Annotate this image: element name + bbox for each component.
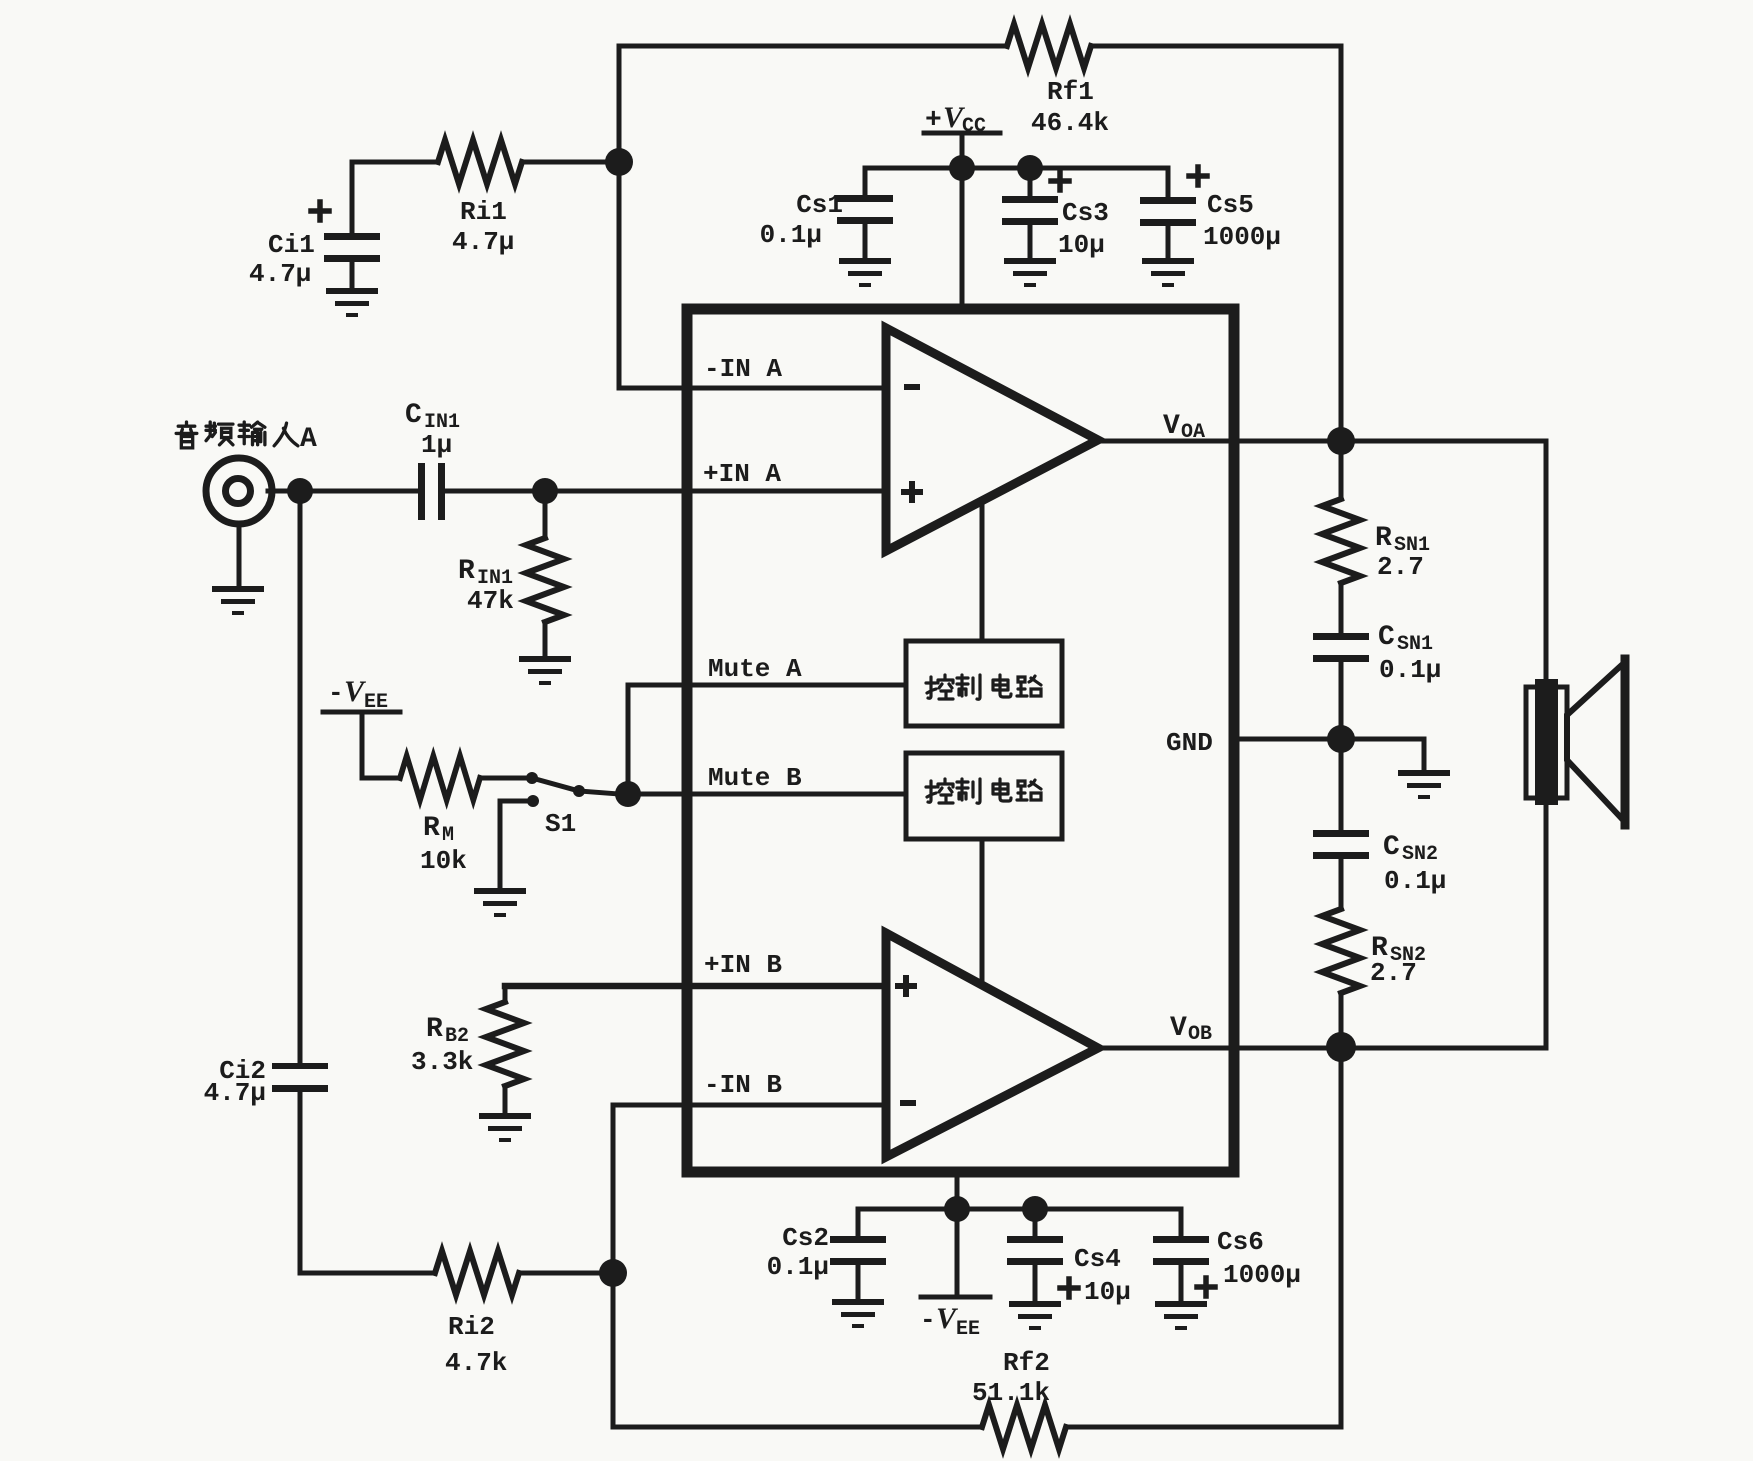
op-amp U1B minus mark bbox=[900, 1100, 916, 1106]
capacitor Ci1 bbox=[311, 202, 380, 288]
wire bottom feedback right segment bbox=[1068, 1425, 1341, 1430]
node Ri2 junction bbox=[599, 1259, 627, 1287]
svg-text:Cs5: Cs5 bbox=[1207, 190, 1254, 220]
svg-text:+IN A: +IN A bbox=[703, 459, 781, 489]
resistor RSN2 bbox=[1322, 909, 1360, 993]
svg-text:Cs2: Cs2 bbox=[782, 1223, 829, 1253]
svg-text:4.7k: 4.7k bbox=[445, 1348, 507, 1378]
resistor Ri1 bbox=[438, 140, 522, 184]
svg-text:2.7: 2.7 bbox=[1377, 552, 1424, 582]
wire VCC stem into box bbox=[960, 133, 965, 308]
svg-text:0.1µ: 0.1µ bbox=[767, 1252, 829, 1282]
ground audio input bbox=[212, 586, 264, 615]
capacitor CSN2 bbox=[1313, 830, 1369, 859]
svg-text:B2: B2 bbox=[445, 1025, 469, 1048]
resistor Rf2 bbox=[982, 1405, 1066, 1449]
wire bottom feedback left segment bbox=[613, 1425, 982, 1430]
wire CSN2 to RSN2 bbox=[1339, 859, 1344, 909]
svg-text:Ri1: Ri1 bbox=[460, 197, 507, 227]
capacitor Cs3 bbox=[1002, 168, 1069, 258]
svg-text:-IN B: -IN B bbox=[704, 1070, 782, 1100]
svg-text:SN1: SN1 bbox=[1397, 633, 1433, 656]
wire Ri1 left lead bbox=[352, 160, 619, 165]
wire CSN1 to GND node bbox=[1339, 662, 1344, 830]
wire -IN B bbox=[613, 1103, 886, 1108]
op-amp U1A bbox=[886, 328, 1098, 551]
label Rf2 value bbox=[972, 1348, 1050, 1408]
wire GND stem bbox=[1422, 739, 1427, 770]
svg-text:0.1µ: 0.1µ bbox=[1379, 655, 1441, 685]
node Cs3 tap bbox=[1017, 155, 1043, 181]
svg-text:1000µ: 1000µ bbox=[1223, 1260, 1301, 1290]
speaker LS1 bbox=[1526, 659, 1625, 825]
IC outline box bbox=[687, 309, 1234, 1172]
node VEE stem rail bbox=[944, 1196, 970, 1222]
wire -IN B vertical bbox=[611, 1105, 616, 1427]
svg-text:-IN A: -IN A bbox=[704, 354, 782, 384]
capacitor Ci2 bbox=[272, 1063, 328, 1092]
label Cs4 value bbox=[1074, 1244, 1131, 1307]
svg-text:R: R bbox=[426, 1014, 443, 1045]
capacitor Cs4 bbox=[1007, 1209, 1078, 1301]
ground Cs4 bbox=[1009, 1301, 1061, 1330]
label RB2 value bbox=[411, 1014, 473, 1077]
label Cs2 value bbox=[767, 1223, 829, 1282]
svg-text:+IN B: +IN B bbox=[704, 950, 782, 980]
svg-text:Rf2: Rf2 bbox=[1003, 1348, 1050, 1378]
svg-text:4.7µ: 4.7µ bbox=[452, 227, 514, 257]
wire RM right lead bbox=[480, 776, 527, 781]
capacitor Cs5 bbox=[1140, 167, 1207, 258]
svg-text:Ri2: Ri2 bbox=[448, 1312, 495, 1342]
switch S1 bbox=[526, 772, 619, 807]
svg-text:1000µ: 1000µ bbox=[1203, 222, 1281, 252]
svg-text:Ci1: Ci1 bbox=[268, 230, 315, 260]
wire opamp A to control 1 bbox=[980, 500, 985, 641]
svg-text:2.7: 2.7 bbox=[1370, 958, 1417, 988]
wire speaker bottom bbox=[1544, 805, 1549, 1047]
wire Mute B bbox=[628, 792, 906, 797]
pin VOB label bbox=[1170, 1013, 1212, 1046]
ground Cs6 bbox=[1155, 1301, 1207, 1330]
label RM value bbox=[420, 813, 467, 876]
svg-text:S1: S1 bbox=[545, 809, 576, 839]
svg-text:4.7µ: 4.7µ bbox=[249, 259, 311, 289]
svg-text:R: R bbox=[458, 556, 475, 587]
svg-text:Rf1: Rf1 bbox=[1047, 77, 1094, 107]
svg-text:C: C bbox=[1378, 622, 1395, 653]
label CSN2 value bbox=[1383, 832, 1446, 896]
wire Mute A bbox=[628, 683, 906, 688]
wire mute link vertical bbox=[626, 685, 631, 794]
svg-text:0.1µ: 0.1µ bbox=[760, 220, 822, 250]
label Cs5 value bbox=[1203, 190, 1281, 252]
pin VOA label bbox=[1163, 411, 1205, 444]
svg-text:51.1k: 51.1k bbox=[972, 1378, 1050, 1408]
wire RM left lead bbox=[362, 712, 400, 778]
node GND junction bbox=[1327, 725, 1355, 753]
node Ri1 junction bbox=[605, 148, 633, 176]
ground Cs1 bbox=[839, 258, 891, 287]
svg-text:10k: 10k bbox=[420, 846, 467, 876]
label Rf1 value bbox=[1031, 77, 1109, 138]
svg-text:Cs4: Cs4 bbox=[1074, 1244, 1121, 1274]
label CIN1 value bbox=[405, 400, 460, 460]
wire control 2 to opamp B bbox=[980, 839, 985, 985]
op-amp U1A minus mark bbox=[904, 384, 920, 390]
resistor RB2 bbox=[486, 986, 524, 1113]
wire audio node to Ci2 bbox=[298, 491, 303, 1063]
capacitor CSN1 bbox=[1313, 633, 1369, 662]
svg-text:0.1µ: 0.1µ bbox=[1384, 866, 1446, 896]
wire +IN B bbox=[505, 983, 886, 990]
wire Ci1 top lead bbox=[350, 162, 355, 233]
svg-text:10µ: 10µ bbox=[1058, 230, 1105, 260]
op-amp U1A plus mark bbox=[904, 484, 920, 500]
svg-text:SN2: SN2 bbox=[1402, 843, 1438, 866]
svg-text:OA: OA bbox=[1181, 421, 1205, 444]
wire VOA vertical chain top bbox=[1339, 441, 1344, 499]
label Cs6 value bbox=[1217, 1227, 1301, 1290]
node input A bbox=[287, 478, 313, 504]
control circuit block 1 bbox=[906, 641, 1062, 726]
power -VEE symbol lower bbox=[920, 1297, 990, 1341]
wire Ci2 to Ri2 bbox=[300, 1092, 435, 1273]
wire speaker top bbox=[1544, 441, 1549, 679]
label Cs1 value bbox=[760, 190, 843, 250]
ground Cs5 bbox=[1142, 258, 1194, 287]
wire RSN2 to VOB node bbox=[1339, 993, 1344, 1427]
svg-text:Mute A: Mute A bbox=[708, 654, 802, 684]
ground S1 bbox=[474, 888, 526, 917]
svg-text:GND: GND bbox=[1166, 728, 1213, 758]
svg-text:-: - bbox=[920, 1305, 936, 1335]
label Ri2 value bbox=[445, 1312, 507, 1378]
label RSN2 value bbox=[1370, 933, 1426, 988]
resistor RIN1 bbox=[526, 491, 564, 656]
svg-text:-: - bbox=[328, 678, 344, 708]
op-amp U1B bbox=[886, 933, 1098, 1157]
wire opamp A output bbox=[1098, 439, 1546, 444]
wire IC bottom VEE stem bbox=[955, 1172, 960, 1297]
svg-text:R: R bbox=[423, 813, 440, 844]
capacitor Cs1 bbox=[837, 168, 893, 258]
svg-text:Cs1: Cs1 bbox=[796, 190, 843, 220]
ground Cs3 bbox=[1004, 258, 1056, 287]
node VCC stem bbox=[949, 155, 975, 181]
svg-text:EE: EE bbox=[956, 1318, 980, 1341]
svg-text:M: M bbox=[442, 824, 454, 847]
node mute junction bbox=[615, 781, 641, 807]
svg-text:47k: 47k bbox=[467, 586, 514, 616]
node VOB bbox=[1326, 1032, 1356, 1062]
resistor RSN1 bbox=[1322, 499, 1360, 583]
ground GND pin bbox=[1398, 770, 1450, 799]
power -VEE symbol upper bbox=[323, 675, 400, 714]
resistor Ri2 bbox=[435, 1251, 519, 1295]
svg-text:4.7µ: 4.7µ bbox=[204, 1078, 266, 1108]
label Ci1 value bbox=[249, 230, 315, 289]
ground Cs2 bbox=[832, 1299, 884, 1328]
svg-text:Mute B: Mute B bbox=[708, 763, 802, 793]
control circuit block 2 bbox=[906, 753, 1062, 839]
wire opamp B output bbox=[1098, 1046, 1546, 1051]
svg-text:46.4k: 46.4k bbox=[1031, 108, 1109, 138]
label audio input A bbox=[176, 422, 317, 455]
svg-text:A: A bbox=[300, 424, 317, 455]
node RIN1 tap bbox=[532, 478, 558, 504]
label RSN1 value bbox=[1375, 523, 1430, 582]
svg-text:V: V bbox=[1170, 1013, 1187, 1044]
wire RSN1 to CSN1 bbox=[1339, 583, 1344, 633]
label Ci2 value bbox=[204, 1056, 266, 1108]
capacitor Cs6 bbox=[1153, 1209, 1215, 1301]
svg-text:OB: OB bbox=[1188, 1023, 1212, 1046]
wire top feedback right segment bbox=[1093, 44, 1341, 49]
svg-text:C: C bbox=[405, 400, 422, 431]
label Ri1 value bbox=[452, 197, 514, 257]
svg-text:Cs3: Cs3 bbox=[1062, 198, 1109, 228]
label RIN1 value bbox=[458, 556, 514, 616]
svg-text:Cs6: Cs6 bbox=[1217, 1227, 1264, 1257]
node VOA bbox=[1327, 427, 1355, 455]
svg-text:C: C bbox=[1383, 832, 1400, 863]
svg-text:V: V bbox=[1163, 411, 1180, 442]
label Cs3 value bbox=[1058, 198, 1109, 260]
wire GND pin bbox=[1234, 737, 1424, 742]
resistor RM bbox=[400, 756, 480, 800]
wire VEE rail bbox=[858, 1207, 1181, 1212]
wire VCC rail bbox=[865, 166, 1168, 171]
capacitor Cs2 bbox=[830, 1209, 886, 1299]
node Cs4 tap bbox=[1022, 1196, 1048, 1222]
ground RIN1 bbox=[519, 656, 571, 685]
svg-text:1µ: 1µ bbox=[421, 430, 452, 460]
wire S1 to ground bbox=[500, 801, 533, 888]
svg-text:R: R bbox=[1375, 523, 1392, 554]
wire feedback right vertical bbox=[1339, 46, 1344, 441]
ground RB2 bbox=[479, 1113, 531, 1142]
wire feedback left vertical to -IN A bbox=[619, 46, 886, 388]
power +VCC symbol bbox=[924, 101, 1000, 138]
connector audio input A bbox=[206, 458, 272, 586]
label CSN1 value bbox=[1378, 622, 1441, 685]
resistor Rf1 bbox=[1007, 24, 1091, 68]
svg-text:3.3k: 3.3k bbox=[411, 1047, 473, 1077]
op-amp U1B plus mark bbox=[898, 978, 914, 994]
ground Ci1 bbox=[326, 288, 378, 317]
svg-text:10µ: 10µ bbox=[1084, 1277, 1131, 1307]
wire +IN A bbox=[268, 489, 886, 494]
wire Ri2 right lead bbox=[519, 1271, 613, 1276]
wire top feedback left segment bbox=[619, 44, 1007, 49]
capacitor CIN1 bbox=[418, 463, 445, 520]
